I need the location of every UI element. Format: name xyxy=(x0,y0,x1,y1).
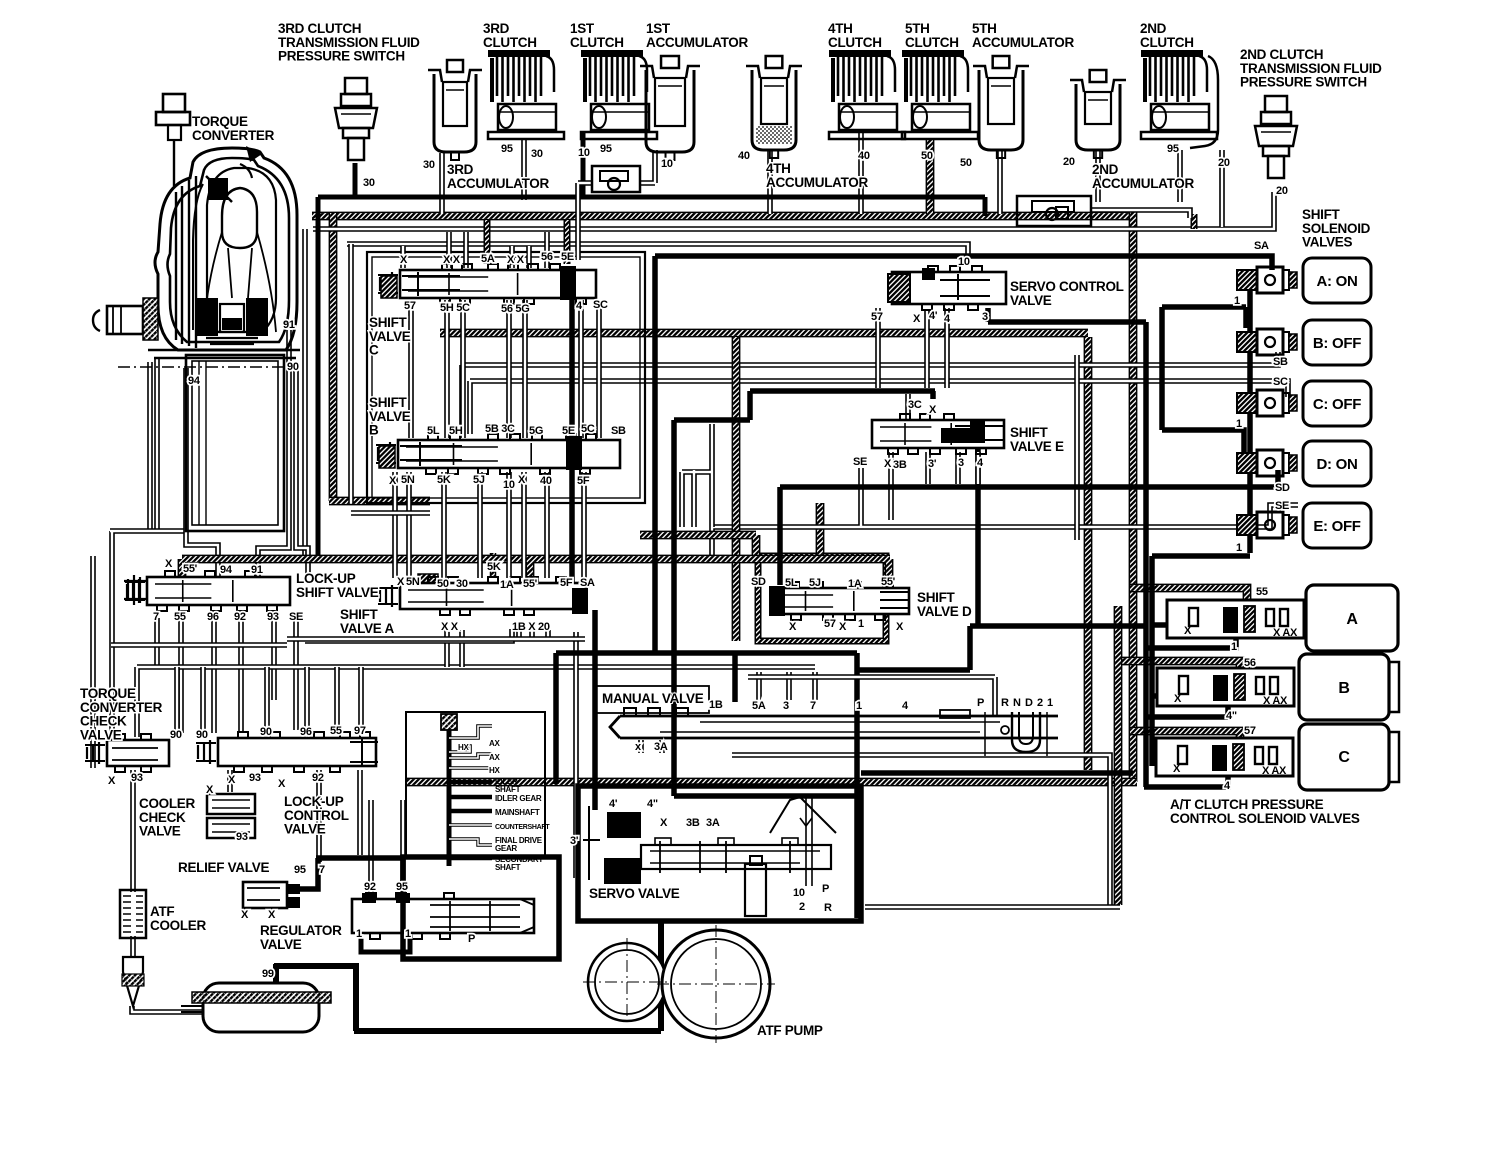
svg-text:56: 56 xyxy=(1244,657,1256,669)
svg-text:1: 1 xyxy=(356,928,362,940)
svg-text:1: 1 xyxy=(1234,295,1240,307)
svg-text:4': 4' xyxy=(609,798,618,810)
svg-text:P: P xyxy=(822,883,829,895)
svg-text:E: OFF: E: OFF xyxy=(1313,518,1360,535)
wire pipe lower-left feed stems xyxy=(177,667,361,735)
svg-text:SD: SD xyxy=(751,576,766,588)
svg-text:5J: 5J xyxy=(809,577,821,589)
2nd clutch xyxy=(1141,50,1218,148)
svg-text:3B: 3B xyxy=(686,817,700,829)
svg-text:3A: 3A xyxy=(706,817,720,829)
svg-text:X: X xyxy=(268,909,276,921)
wire pipe manual valve port stems xyxy=(641,672,815,753)
wire pipe left ring vertical xyxy=(302,229,308,556)
svg-text:5H 5C: 5H 5C xyxy=(440,302,470,314)
svg-text:X: X xyxy=(397,576,405,588)
svg-text:X: X xyxy=(108,775,116,787)
wire ring hatched top xyxy=(312,212,1133,221)
svg-text:X: X xyxy=(913,313,921,325)
atf pump xyxy=(583,925,775,1043)
svg-text:5N: 5N xyxy=(401,474,415,486)
manual valve xyxy=(596,686,1058,738)
svg-text:5L: 5L xyxy=(427,425,440,437)
2nd clutch pressure switch xyxy=(1255,96,1297,178)
manifold thin box xyxy=(406,712,545,857)
svg-text:1: 1 xyxy=(405,928,411,940)
relief valve xyxy=(243,882,310,908)
atf cooler xyxy=(120,890,146,938)
wire hatched 55 feed to valve A xyxy=(1130,588,1247,603)
svg-text:X AX: X AX xyxy=(1273,627,1298,639)
svg-text:RELIEF VALVE: RELIEF VALVE xyxy=(178,860,269,875)
svg-text:SB: SB xyxy=(611,425,626,437)
svg-text:X X: X X xyxy=(507,254,525,266)
wire thick solenoid trunk right xyxy=(1247,270,1253,553)
svg-text:N: N xyxy=(1013,697,1021,709)
svg-text:10: 10 xyxy=(661,158,673,170)
svg-text:SE: SE xyxy=(289,611,303,623)
svg-text:20: 20 xyxy=(1063,156,1075,168)
5th clutch xyxy=(902,50,978,139)
svg-text:5K: 5K xyxy=(487,561,501,573)
svg-text:2: 2 xyxy=(799,901,805,913)
svg-text:1A: 1A xyxy=(848,578,862,590)
svg-text:5F: 5F xyxy=(560,577,573,589)
torque converter check valve xyxy=(85,734,169,772)
svg-text:SA: SA xyxy=(580,577,595,589)
svg-text:X X: X X xyxy=(443,254,461,266)
check valve near 2nd accumulator xyxy=(1017,196,1091,226)
svg-text:3B: 3B xyxy=(893,459,907,471)
pressure control valve A assembly xyxy=(1167,585,1398,651)
svg-text:3: 3 xyxy=(958,457,964,469)
svg-text:1: 1 xyxy=(856,700,862,712)
wire hatched 57 feed to valve C xyxy=(1130,731,1240,746)
svg-text:10: 10 xyxy=(958,256,970,268)
shift valve D xyxy=(769,582,909,620)
svg-text:20: 20 xyxy=(1276,185,1288,197)
svg-text:X: X xyxy=(389,475,397,487)
svg-text:X: X xyxy=(660,817,668,829)
manual valve detent RND21 xyxy=(985,712,1047,756)
svg-text:57: 57 xyxy=(1244,725,1256,737)
svg-text:5E: 5E xyxy=(562,425,575,437)
wire pipe manual valve P feed xyxy=(748,677,995,716)
wire thick valve A port drop x595 xyxy=(592,610,598,810)
svg-text:90: 90 xyxy=(260,726,272,738)
svg-text:B: B xyxy=(1338,680,1349,697)
svg-text:1B X 20: 1B X 20 xyxy=(512,621,550,633)
svg-text:X: X xyxy=(400,254,408,266)
1st clutch xyxy=(581,50,657,139)
svg-text:AX: AX xyxy=(489,753,500,762)
pressure control valve C assembly xyxy=(1156,724,1399,790)
5th accumulator xyxy=(973,56,1029,158)
wire pipe SB line xyxy=(462,352,1278,434)
wire pipe valve E stems down xyxy=(891,452,978,520)
svg-text:X: X xyxy=(278,778,286,790)
wire pipe top ring to 2nd pressure switch xyxy=(313,192,1274,229)
svg-text:94: 94 xyxy=(220,564,233,576)
svg-text:4": 4" xyxy=(1226,710,1237,722)
svg-text:X AX: X AX xyxy=(1263,695,1288,707)
wire pipe valve C to valve B stems xyxy=(411,300,599,438)
wire thick y653 line xyxy=(556,653,857,784)
shift valve C xyxy=(378,264,596,304)
svg-text:50: 50 xyxy=(960,157,972,169)
svg-text:95: 95 xyxy=(600,143,612,155)
cooler check valve xyxy=(207,794,255,838)
svg-text:X: X xyxy=(1184,625,1192,637)
4th clutch xyxy=(829,50,905,139)
shift valve E xyxy=(872,414,1004,454)
svg-text:3A: 3A xyxy=(654,741,668,753)
svg-text:X: X xyxy=(1174,693,1182,705)
wire pipe x1077 drop xyxy=(1074,355,1080,540)
wire ring hatched right xyxy=(1129,212,1138,782)
wire pipe torque converter out xyxy=(110,531,186,742)
wire pipe SC line xyxy=(470,381,1288,434)
wire thick relief feed xyxy=(297,858,403,889)
svg-text:X: X xyxy=(241,909,249,921)
wire pipe valve B to valve A stems xyxy=(395,472,584,578)
pressure control valve B assembly xyxy=(1157,654,1399,720)
svg-text:91: 91 xyxy=(251,564,263,576)
svg-text:92: 92 xyxy=(312,772,324,784)
torque converter feed chamber xyxy=(186,355,284,531)
wire pipe clutch stubs xyxy=(442,133,1222,227)
hatched stub 5K xyxy=(490,553,497,576)
svg-text:55: 55 xyxy=(174,611,186,623)
svg-text:SE: SE xyxy=(853,456,867,468)
wire pipe regulator feeds 92 95 xyxy=(371,800,403,897)
svg-text:X: X xyxy=(884,458,892,470)
wire pipe 3C stem xyxy=(905,394,911,420)
shift valve A xyxy=(378,577,588,615)
svg-text:55: 55 xyxy=(330,725,342,737)
check valve near 1st accumulator xyxy=(592,166,640,192)
wire thick pressure valve returns xyxy=(988,308,1236,787)
svg-text:56 5G: 56 5G xyxy=(501,303,529,315)
solenoid valve A xyxy=(1237,258,1371,303)
wire hatched vert x1088 xyxy=(1084,337,1093,770)
svg-text:X AX: X AX xyxy=(1262,765,1287,777)
wire pipe 1st accumulator check valve link xyxy=(578,150,655,260)
svg-text:1: 1 xyxy=(1236,418,1242,430)
svg-text:96: 96 xyxy=(300,726,312,738)
svg-text:1B: 1B xyxy=(709,699,723,711)
svg-text:99: 99 xyxy=(262,968,274,980)
svg-text:SC: SC xyxy=(1273,376,1288,388)
hatched block valve A 5N xyxy=(418,574,438,598)
wire thick trunk x674 xyxy=(674,420,860,796)
svg-text:4": 4" xyxy=(647,798,658,810)
svg-text:55': 55' xyxy=(183,563,198,575)
svg-text:57: 57 xyxy=(824,618,836,630)
wire hatched to valve B box xyxy=(329,497,430,506)
solenoid valve B xyxy=(1237,320,1371,365)
wire thick solenoid B feed xyxy=(1162,307,1246,328)
svg-text:10: 10 xyxy=(578,147,590,159)
svg-text:5J: 5J xyxy=(473,474,485,486)
svg-text:5A: 5A xyxy=(752,700,766,712)
lock-up shift valve xyxy=(124,571,290,611)
wire pipe cooler check drop xyxy=(230,770,360,862)
svg-text:93: 93 xyxy=(267,611,279,623)
wire thick y626 link xyxy=(857,626,1146,670)
wire pipe servo control drop xyxy=(924,310,930,388)
wire pipe lockup drops xyxy=(157,618,296,733)
lock-up control valve xyxy=(196,732,378,772)
wire thick 5E net xyxy=(569,300,575,590)
wire pipe 94 line xyxy=(186,368,218,576)
svg-text:95: 95 xyxy=(1167,143,1179,155)
svg-text:20: 20 xyxy=(1218,157,1230,169)
svg-text:93: 93 xyxy=(131,772,143,784)
svg-text:2: 2 xyxy=(1037,697,1043,709)
wire hatched 5th clutch drop xyxy=(926,140,935,214)
svg-text:MANUAL VALVE: MANUAL VALVE xyxy=(602,691,704,706)
wire pipe converter left down xyxy=(150,358,157,531)
svg-text:SE: SE xyxy=(1275,500,1289,512)
svg-text:X: X xyxy=(228,774,236,786)
wire pipe y641 to valve A 20 xyxy=(305,629,512,641)
svg-text:X: X xyxy=(518,474,526,486)
svg-text:C: C xyxy=(1338,749,1350,766)
wire thick SA line xyxy=(655,256,1272,270)
1st accumulator xyxy=(640,56,700,160)
svg-text:5L: 5L xyxy=(785,577,798,589)
wire thick 1st clutch trunk x583 xyxy=(581,133,586,199)
svg-text:55': 55' xyxy=(881,576,896,588)
svg-text:5F: 5F xyxy=(577,475,590,487)
svg-text:50: 50 xyxy=(921,150,933,162)
wire thick valve E port 4 drop xyxy=(975,443,981,626)
wire thick solenoid E 1 line xyxy=(1152,556,1250,766)
atf cooler funnel xyxy=(122,957,144,1006)
lubrication manifold xyxy=(441,714,492,866)
svg-text:C: OFF: C: OFF xyxy=(1313,396,1361,413)
box shift valves C and B xyxy=(367,252,645,503)
wire hatched stub x1194 xyxy=(1191,214,1198,229)
svg-text:SB: SB xyxy=(1273,356,1288,368)
svg-text:MAINSHAFT: MAINSHAFT xyxy=(495,808,540,817)
svg-text:90: 90 xyxy=(287,361,299,373)
svg-text:HX: HX xyxy=(458,743,469,752)
svg-text:D: ON: D: ON xyxy=(1317,456,1358,473)
wire thick 3rd switch drop xyxy=(353,163,358,199)
svg-text:7: 7 xyxy=(319,864,325,876)
svg-text:90: 90 xyxy=(196,729,208,741)
svg-text:55: 55 xyxy=(1256,586,1268,598)
shift valve B xyxy=(376,434,620,474)
svg-text:P: P xyxy=(977,697,984,709)
svg-text:5B 3C: 5B 3C xyxy=(485,423,515,435)
svg-text:R: R xyxy=(824,902,832,914)
svg-text:AX: AX xyxy=(489,739,500,748)
svg-text:X: X xyxy=(789,621,797,633)
svg-text:7: 7 xyxy=(153,611,159,623)
wire ring hatched left xyxy=(329,213,338,501)
3rd clutch xyxy=(488,50,564,139)
svg-text:X: X xyxy=(1173,763,1181,775)
svg-text:3': 3' xyxy=(928,458,937,470)
svg-text:X: X xyxy=(839,621,847,633)
svg-text:30: 30 xyxy=(531,148,543,160)
wire pipe manual valve top y755 xyxy=(732,755,1110,905)
svg-text:40: 40 xyxy=(858,150,870,162)
solenoid valve D xyxy=(1237,441,1371,486)
svg-text:COUNTERSHAFT: COUNTERSHAFT xyxy=(495,824,550,831)
wire thick manual valve 1B drop xyxy=(732,653,738,702)
svg-text:P: P xyxy=(468,933,475,945)
wire pipe valve C top stems xyxy=(403,232,547,268)
hatched enclosure around shift valve D xyxy=(758,556,886,641)
svg-text:56: 56 xyxy=(541,251,553,263)
torque converter xyxy=(93,94,300,367)
svg-text:92: 92 xyxy=(364,881,376,893)
atf strainer xyxy=(181,983,331,1032)
svg-text:40: 40 xyxy=(540,475,552,487)
wire pipe valve A bottom stems xyxy=(447,630,548,667)
solenoid valve E xyxy=(1237,503,1371,548)
svg-text:A: A xyxy=(1346,611,1358,628)
3rd clutch pressure switch xyxy=(335,78,377,160)
svg-text:X: X xyxy=(165,558,173,570)
svg-text:40: 40 xyxy=(738,150,750,162)
svg-text:IDLER GEAR: IDLER GEAR xyxy=(495,794,542,803)
svg-text:R: R xyxy=(1001,697,1009,709)
svg-text:55': 55' xyxy=(523,578,538,590)
svg-text:91: 91 xyxy=(283,319,295,331)
regulator valve xyxy=(352,893,534,939)
servo control valve xyxy=(888,266,1006,310)
wire pipe second ring to servo control 10 xyxy=(347,244,968,263)
wire pipe x694 drop xyxy=(682,424,712,527)
svg-text:95: 95 xyxy=(501,143,513,155)
wire pipe mid-left horizontal xyxy=(137,667,815,737)
wire hatched above valve D xyxy=(816,503,825,556)
wire hatched y535 link xyxy=(640,535,756,556)
wire pipe atf cooler line xyxy=(132,770,203,1012)
svg-text:10: 10 xyxy=(503,479,515,491)
svg-text:30: 30 xyxy=(363,177,375,189)
wire thick 4 line to valve C xyxy=(861,770,1133,776)
svg-text:5H: 5H xyxy=(449,425,463,437)
wire hatched mid ring xyxy=(440,329,1088,338)
3rd accumulator xyxy=(428,60,482,160)
svg-text:97: 97 xyxy=(354,725,366,737)
svg-text:5C: 5C xyxy=(581,423,595,435)
wire thick regulator 1 ports xyxy=(361,938,410,952)
svg-text:3: 3 xyxy=(982,311,988,323)
wire thick pump suction xyxy=(274,921,661,1031)
svg-text:X: X xyxy=(206,784,214,796)
2nd accumulator xyxy=(1070,70,1126,158)
svg-text:5K: 5K xyxy=(437,474,451,486)
svg-text:95: 95 xyxy=(294,864,306,876)
wire pipe left band y645 xyxy=(111,642,287,648)
regulator heavy box xyxy=(403,857,559,959)
wire pipe vert x351 xyxy=(348,244,354,503)
svg-text:SA: SA xyxy=(1254,240,1269,252)
svg-text:7: 7 xyxy=(810,700,816,712)
wire hatched vert x1118 xyxy=(1114,606,1123,905)
svg-text:SC: SC xyxy=(593,299,608,311)
svg-text:92: 92 xyxy=(234,611,246,623)
wire pipe valve A row box bottom xyxy=(287,636,585,642)
solenoid valve C xyxy=(1237,381,1371,426)
servo valve assembly xyxy=(578,786,861,921)
svg-text:1A: 1A xyxy=(500,579,514,591)
wire pipe under valve B box xyxy=(351,510,430,516)
svg-text:B: OFF: B: OFF xyxy=(1313,335,1361,352)
wire thick top line xyxy=(318,197,985,556)
svg-text:93: 93 xyxy=(249,772,261,784)
wire pipe SE line xyxy=(712,468,1298,556)
svg-text:4': 4' xyxy=(929,310,938,322)
svg-text:X X: X X xyxy=(441,621,459,633)
svg-text:SD: SD xyxy=(1275,482,1290,494)
svg-text:30: 30 xyxy=(456,578,468,590)
wire hatched vert x736 xyxy=(732,337,741,641)
svg-text:5A: 5A xyxy=(481,253,495,265)
wire hatched stubs above valve C xyxy=(487,220,567,264)
svg-text:5G: 5G xyxy=(529,425,543,437)
svg-text:SERVO VALVE: SERVO VALVE xyxy=(589,886,680,901)
svg-text:94: 94 xyxy=(188,375,201,387)
wire hatched 56 feed to valve B xyxy=(1118,661,1240,676)
wire pipe servo 3-prime line xyxy=(573,632,579,878)
svg-text:3: 3 xyxy=(783,700,789,712)
svg-text:A: ON: A: ON xyxy=(1317,273,1358,290)
svg-text:93: 93 xyxy=(236,831,248,843)
svg-text:5N: 5N xyxy=(406,576,420,588)
svg-text:96: 96 xyxy=(207,611,219,623)
svg-text:30: 30 xyxy=(423,159,435,171)
svg-text:10: 10 xyxy=(793,887,805,899)
svg-text:3C: 3C xyxy=(908,399,922,411)
svg-text:57: 57 xyxy=(404,300,416,312)
wire thick solenoid D feed x1162 xyxy=(1162,307,1244,452)
4th accumulator xyxy=(746,56,802,158)
svg-text:1: 1 xyxy=(1231,641,1237,653)
wire thick SD line xyxy=(780,470,1278,585)
svg-text:X: X xyxy=(896,621,904,633)
svg-text:50: 50 xyxy=(437,578,449,590)
svg-text:5E: 5E xyxy=(561,251,574,263)
wire pipe 90 line xyxy=(296,370,308,576)
wire thick trunk x857 xyxy=(854,653,860,918)
svg-text:90: 90 xyxy=(170,729,182,741)
wire pipe left column x93 xyxy=(90,556,96,768)
wire pipe after check valve right xyxy=(1092,210,1190,218)
svg-text:1: 1 xyxy=(858,618,864,630)
svg-text:X: X xyxy=(929,404,937,416)
svg-text:1: 1 xyxy=(1236,542,1242,554)
svg-text:IDLERSHAFT: IDLERSHAFT xyxy=(495,777,521,794)
wire ring hatched bottom xyxy=(405,778,1137,787)
svg-text:95: 95 xyxy=(396,881,408,893)
wire pipe 91 line xyxy=(258,330,289,576)
svg-text:1: 1 xyxy=(1047,697,1053,709)
wire pipe bottom ring xyxy=(865,904,1120,910)
wire hatched 55-prime long line xyxy=(182,559,890,586)
wire thick SA down to valve E area xyxy=(655,256,935,653)
wire pipe servo control stems down xyxy=(878,308,947,388)
svg-text:3': 3' xyxy=(570,835,579,847)
svg-text:ATF PUMP: ATF PUMP xyxy=(757,1023,823,1038)
